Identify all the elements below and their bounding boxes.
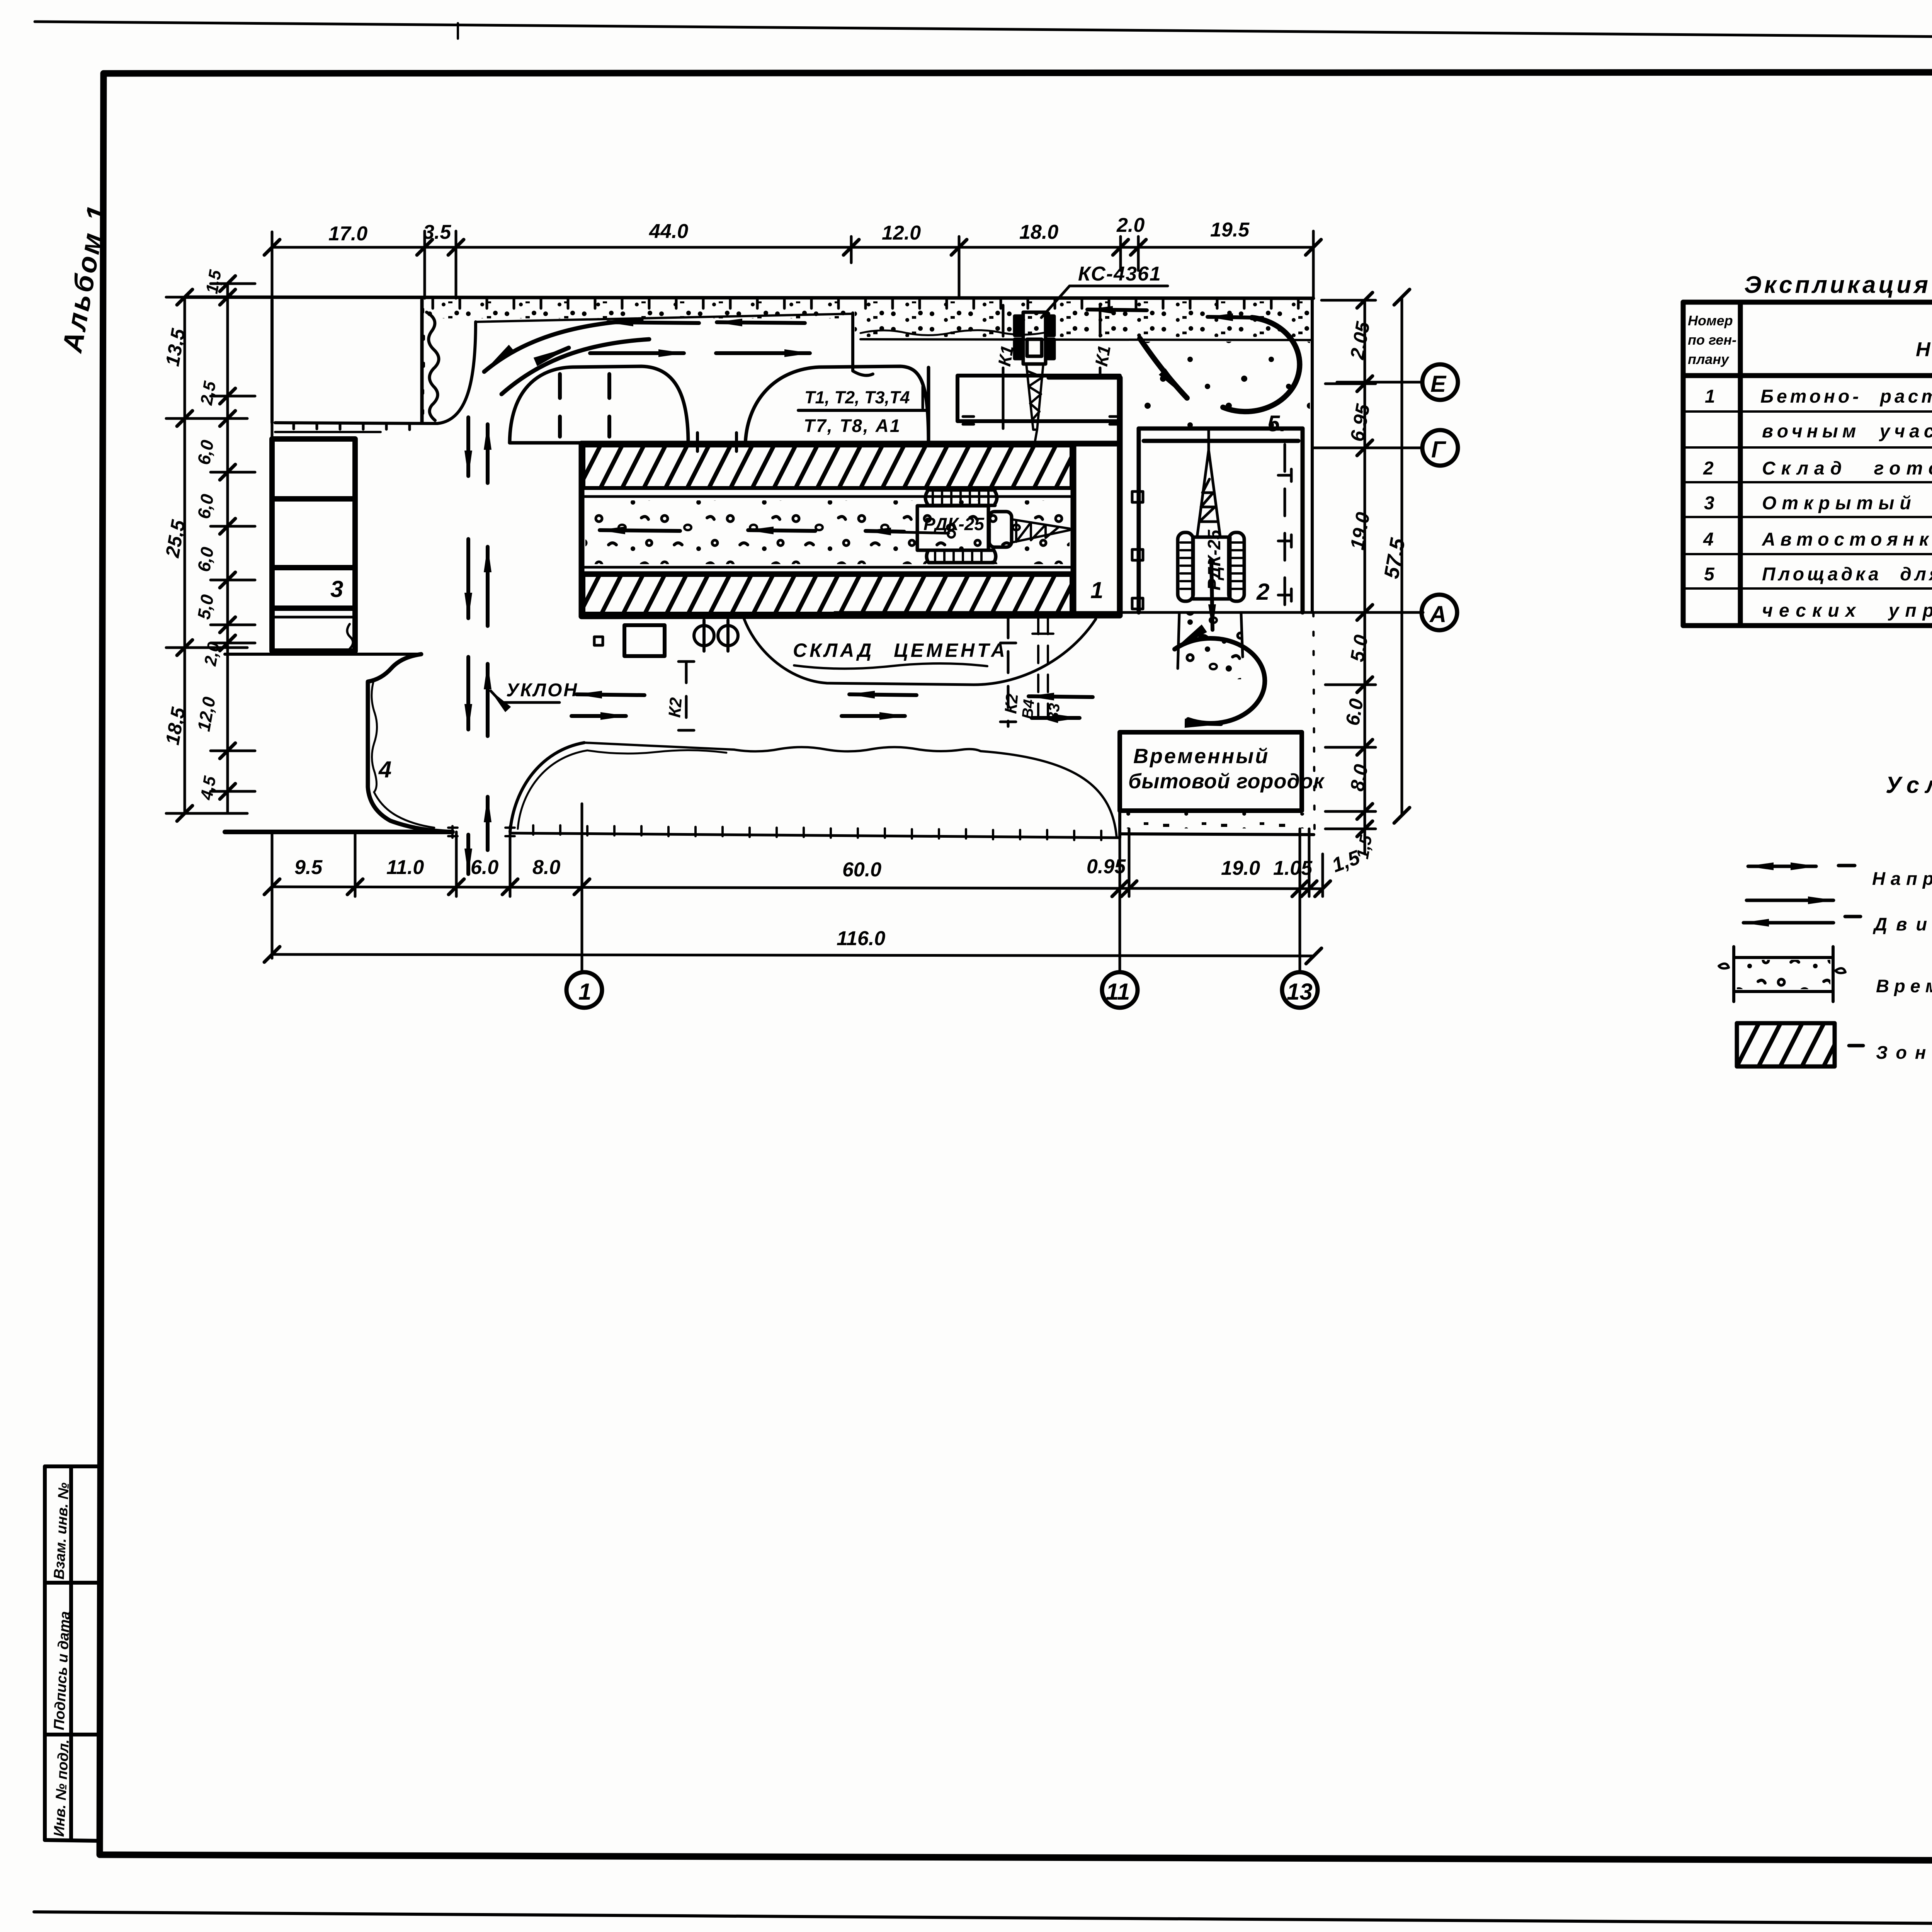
mound A road loop	[510, 366, 688, 443]
cement silos (circles with cross)	[694, 626, 714, 646]
svg-text:11.0: 11.0	[386, 856, 424, 879]
svg-text:6,0: 6,0	[194, 492, 218, 520]
svg-text:0.95: 0.95	[1087, 855, 1126, 878]
freehand wavy edge of temporary road	[427, 312, 439, 420]
RDK-25 building 2 boom	[1197, 430, 1220, 537]
table header: Номер по ген-плану	[1688, 313, 1736, 367]
svg-text:3: 3	[1704, 493, 1718, 514]
vertical road arrows set 4	[466, 835, 470, 874]
axis circle E	[1422, 364, 1458, 400]
svg-text:116.0: 116.0	[837, 927, 885, 950]
parallel road edge below block	[275, 431, 381, 433]
vertical road arrows set 1	[466, 417, 470, 476]
crane road lower edge wavy	[861, 330, 1050, 335]
svg-text:3.5: 3.5	[423, 221, 451, 243]
building 1 main outline	[582, 378, 1120, 616]
svg-text:4,5: 4,5	[197, 774, 219, 801]
gate dashes in mound A	[558, 374, 562, 437]
small tick on paper top	[457, 23, 459, 39]
bottom dimension ticks	[264, 879, 1330, 964]
svg-text:6,0: 6,0	[194, 438, 218, 466]
gate posts at road exit	[448, 826, 457, 838]
svg-text:18.0: 18.0	[1019, 221, 1058, 243]
building 2 left edge squares	[1132, 492, 1143, 502]
site east boundary	[1311, 298, 1314, 612]
top-left white building block	[270, 300, 274, 423]
svg-text:Т1, Т2, Т3,Т4: Т1, Т2, Т3,Т4	[804, 388, 910, 407]
axis circle 11 (bottom)	[1102, 972, 1138, 1008]
svg-text:5.0: 5.0	[1346, 633, 1372, 663]
svg-text:СКЛАД ЦЕМЕНТА: СКЛАД ЦЕМЕНТА	[793, 639, 1008, 661]
svg-text:1: 1	[1090, 577, 1103, 603]
svg-text:2: 2	[1256, 579, 1269, 605]
svg-text:К2: К2	[1001, 693, 1022, 714]
left dimension labels (rotated)	[162, 268, 225, 801]
gravel band arrows in building 1	[600, 530, 680, 531]
crane KC-4361 symbol	[1015, 312, 1054, 364]
temporary road dotted strip along top	[427, 301, 852, 318]
svg-text:12,0: 12,0	[194, 695, 219, 733]
right dimension labels (rotated)	[1342, 320, 1376, 861]
area 5 short arrow	[1207, 317, 1256, 318]
building 4 (parking) outline	[368, 654, 452, 832]
ticks on mound A base	[696, 433, 699, 451]
svg-text:Наименование: Наименование	[1916, 338, 1932, 361]
svg-text:Г: Г	[1431, 437, 1447, 463]
svg-text:К1: К1	[1091, 344, 1115, 368]
store room square	[624, 625, 665, 656]
svg-text:2.0: 2.0	[1116, 214, 1145, 236]
axis line E	[1337, 381, 1423, 384]
crane axis lines K1	[1002, 305, 1005, 336]
svg-text:1: 1	[578, 979, 591, 1005]
building 1 crane road band (gravel)	[582, 495, 1073, 498]
RDK-25 building 1 boom	[1012, 519, 1070, 543]
axis circle 1 (bottom)	[566, 972, 602, 1008]
cement storage zone boundary	[744, 618, 1096, 685]
svg-text:плану: плану	[1688, 351, 1730, 367]
svg-text:1: 1	[1705, 386, 1718, 407]
top dimension ticks	[264, 240, 1321, 255]
svg-text:А: А	[1429, 601, 1446, 627]
site bottom boundary west part	[225, 830, 452, 834]
svg-text:9.5: 9.5	[294, 856, 323, 879]
bottom dimension labels	[294, 846, 1363, 950]
axis line Г	[1313, 447, 1423, 449]
svg-text:Автостоянка на 2 автомашины: Автостоянка на 2 автомашины	[1762, 529, 1932, 550]
building 4 freehand echo line	[372, 682, 434, 828]
bottom road north edge with freehand wave	[584, 743, 1117, 838]
top road car arrows	[608, 322, 699, 323]
svg-text:5: 5	[1704, 564, 1718, 585]
crane tower lattice	[1026, 364, 1043, 440]
svg-text:5.: 5.	[1267, 411, 1286, 436]
svg-text:Движение автотранспорта: Движение автотранспорта	[1872, 914, 1932, 934]
left dimension chain outer	[166, 284, 255, 813]
svg-text:6.0: 6.0	[1342, 697, 1367, 727]
svg-text:5,0: 5,0	[194, 593, 218, 621]
table rows text	[1703, 386, 1932, 621]
svg-text:Открытый склад заполнителей: Открытый склад заполнителей	[1762, 493, 1932, 514]
svg-text:17.0: 17.0	[328, 223, 367, 245]
svg-text:1.05: 1.05	[1273, 857, 1313, 879]
temporary camp box	[1120, 732, 1302, 811]
site west boundary segment at 5.0	[225, 653, 421, 656]
bottom dimension chain	[272, 804, 1323, 972]
axis line A	[835, 611, 1423, 614]
road west edge corner curve	[437, 322, 476, 423]
building 3 (open storage)	[272, 439, 355, 651]
svg-text:6.0: 6.0	[471, 856, 498, 879]
left dimension ticks	[177, 276, 235, 821]
RDK-25 crane in building 1	[917, 490, 1012, 563]
svg-text:Временные дороги под монтаж: Временные дороги под монтажный кран	[1876, 976, 1932, 996]
site top boundary fence ticks	[433, 298, 1298, 308]
legend symbol: temporary crane road	[1719, 947, 1845, 1002]
svg-text:Экспликация зданий и сооруж: Экспликация зданий и сооружений	[1744, 272, 1932, 298]
svg-text:Взам. инв. №: Взам. инв. №	[51, 1482, 72, 1580]
paper top edge	[35, 22, 1932, 43]
building 1 bottom layout band (hatched)	[583, 575, 1071, 614]
svg-text:Номер: Номер	[1688, 313, 1733, 328]
turning ellipse below building 2	[1175, 638, 1265, 723]
site top boundary	[185, 297, 1313, 298]
paper bottom edge	[34, 1912, 1932, 1928]
svg-text:Склад готовой продукции: Склад готовой продукции	[1762, 458, 1932, 479]
svg-text:19.0: 19.0	[1221, 857, 1260, 879]
svg-text:2: 2	[1703, 458, 1717, 479]
small square	[594, 637, 603, 645]
site bottom fence with ticks	[510, 833, 1120, 838]
gravel strip below building 2	[1179, 614, 1241, 679]
svg-text:57.5: 57.5	[1380, 536, 1410, 580]
svg-text:ческих упражнений: ческих упражнений	[1762, 600, 1932, 621]
svg-text:2,5: 2,5	[197, 379, 219, 406]
axis circle Г	[1422, 430, 1458, 466]
axis circle A	[1422, 595, 1457, 630]
svg-text:Направление движения монтажн: Направление движения монтажного крана	[1872, 868, 1932, 889]
right dimension chain outer 57.5	[1394, 289, 1410, 823]
svg-text:бытовой городок: бытовой городок	[1128, 770, 1325, 793]
area 5 sparse dots	[1140, 342, 1310, 429]
top dimension line	[272, 231, 1313, 439]
svg-text:Е: Е	[1430, 371, 1447, 397]
RDK-25 travel arrow down	[1211, 561, 1213, 630]
building 1 top layout band (hatched)	[583, 446, 1071, 488]
svg-text:19.5: 19.5	[1210, 219, 1250, 241]
debris strip below camp	[1121, 813, 1306, 828]
svg-text:Площадка для отдыха и гимн: Площадка для отдыха и гимнасти-	[1762, 564, 1932, 585]
svg-text:4: 4	[378, 757, 391, 782]
utility line K2 left	[685, 662, 688, 730]
svg-text:вочным участком: вочным участком	[1762, 421, 1932, 442]
svg-text:8.0: 8.0	[1346, 763, 1372, 793]
svg-text:К1: К1	[994, 344, 1018, 368]
svg-text:6,0: 6,0	[194, 545, 218, 573]
wiggle mark below building 3	[347, 624, 353, 649]
bottom road car arrows	[577, 694, 645, 695]
explication table grid	[1683, 302, 1932, 626]
svg-text:19.0: 19.0	[1346, 510, 1374, 551]
svg-text:Зона раскладки конструкций: Зона раскладки конструкций	[1876, 1042, 1932, 1063]
left side tab boxes	[45, 1466, 100, 1841]
svg-text:12.0: 12.0	[882, 222, 921, 244]
svg-text:Бетоно- растворный узел с форм: Бетоно- растворный узел с формо-	[1760, 386, 1932, 407]
svg-text:1,5: 1,5	[1353, 833, 1376, 860]
utility lines B4 B3	[1037, 617, 1039, 717]
boundary step at crane road	[853, 313, 873, 376]
forming area rectangle above building 1	[957, 376, 1120, 421]
svg-text:КС-4361: КС-4361	[1078, 263, 1162, 285]
svg-text:60.0: 60.0	[842, 859, 881, 881]
top dimension labels	[328, 214, 1250, 245]
svg-text:В3: В3	[1044, 702, 1063, 724]
vertical road arrows set 2	[466, 539, 470, 618]
mound B road loop with T-labels	[745, 366, 929, 443]
RDK-25 crane in building 2	[1178, 532, 1244, 601]
road corner curve at bottom (east side)	[510, 743, 584, 832]
junction curved arrows	[484, 320, 641, 372]
right dimension chain inner	[1318, 300, 1376, 854]
gate marks on forming area	[963, 417, 974, 424]
axis circle 13 (bottom)	[1282, 972, 1318, 1008]
svg-text:2,0: 2,0	[201, 640, 223, 667]
svg-text:44.0: 44.0	[649, 220, 688, 243]
legend symbol: vehicle movement arrows	[1743, 900, 1861, 923]
svg-text:3: 3	[330, 576, 343, 602]
vertical road arrows set 3	[466, 657, 470, 730]
building 2 right dashed line	[1284, 444, 1286, 609]
svg-text:по ген-: по ген-	[1688, 332, 1736, 348]
svg-text:8.0: 8.0	[532, 856, 560, 879]
svg-text:Т7, Т8, А1: Т7, Т8, А1	[804, 415, 901, 436]
svg-text:Временный: Временный	[1133, 745, 1269, 768]
utility line K2 right	[1007, 617, 1010, 726]
svg-text:К2: К2	[665, 697, 685, 718]
area 5 turning loop arrow	[1223, 318, 1299, 412]
svg-text:2.05: 2.05	[1346, 320, 1374, 361]
legend symbol: crane movement arrows	[1748, 866, 1855, 866]
svg-text:13: 13	[1287, 979, 1313, 1005]
building 2 (finished goods store)	[1139, 429, 1303, 612]
svg-text:Условные обозначения: Условные обозначения	[1886, 772, 1932, 798]
legend symbol: layout zone hatched box	[1737, 1023, 1835, 1066]
svg-text:6.95: 6.95	[1346, 402, 1374, 443]
svg-text:Инв. № подл.: Инв. № подл.	[51, 1739, 72, 1837]
svg-text:11: 11	[1106, 979, 1130, 1005]
svg-text:УКЛОН: УКЛОН	[506, 680, 578, 701]
svg-text:4: 4	[1703, 529, 1717, 550]
